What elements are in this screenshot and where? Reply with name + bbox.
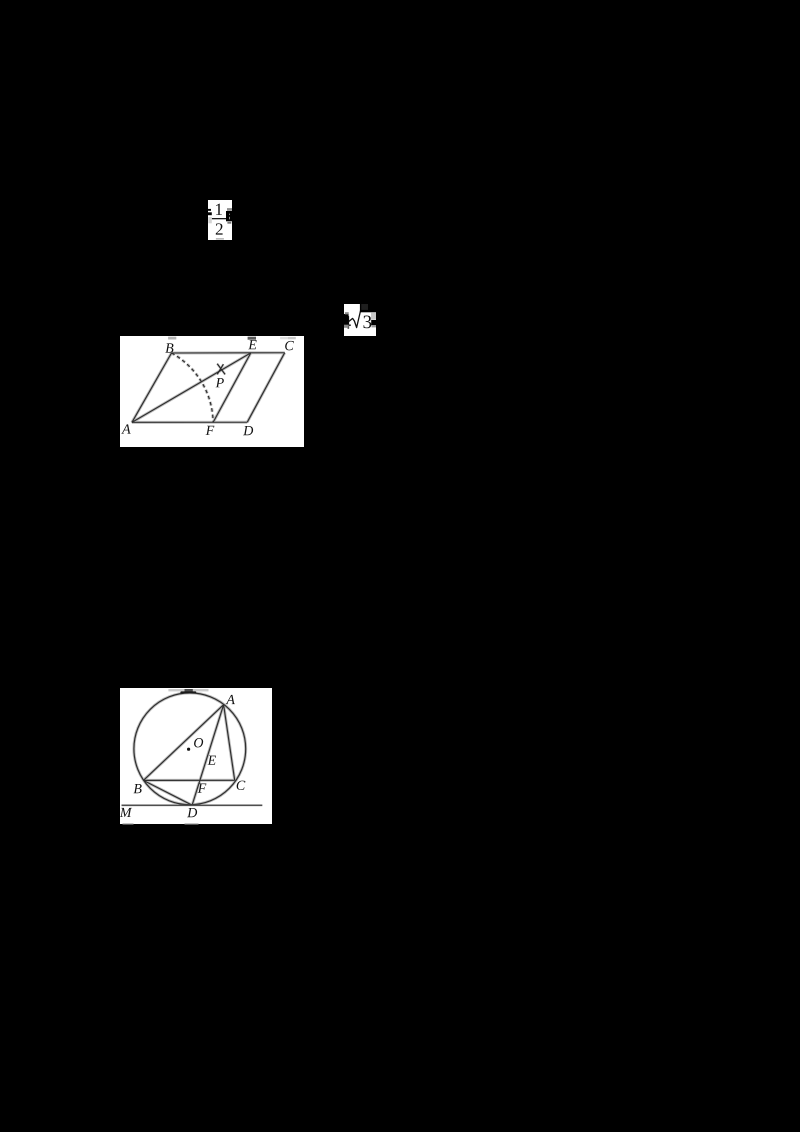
label E [248, 340, 256, 349]
label E [207, 755, 215, 764]
gray tabs above C [280, 336, 288, 338]
formula image: = 1/2 [208, 200, 232, 240]
label P [216, 378, 224, 387]
label B [165, 343, 173, 352]
figure 1: parallelogram ABCD with angle bisector AE, arc B-F, segment EF [120, 336, 304, 447]
side BC [172, 351, 285, 353]
label C [236, 780, 245, 789]
bottom tick under M [122, 823, 133, 824]
digit 4 [342, 316, 351, 329]
figure 2: circle O with inscribed triangle ABD, chord BC, tangent MD [120, 688, 272, 825]
construction cross mark at P [217, 363, 225, 374]
radical sign [349, 310, 368, 328]
side CD [247, 352, 285, 422]
black corner top right [360, 304, 376, 312]
black square right [226, 211, 232, 221]
label M [119, 807, 131, 816]
right column gray strip [372, 325, 377, 327]
digit 3 [363, 316, 371, 329]
chord AC [223, 704, 234, 780]
denominator 2 [216, 223, 223, 234]
faint light marks inside black square [228, 214, 231, 215]
soft halo underlay of all strokes [132, 353, 172, 422]
equals sign remnant [208, 209, 211, 211]
tangent line through M and D [121, 804, 262, 806]
gray tab above E [248, 336, 256, 339]
label A [225, 694, 234, 703]
side AB [132, 353, 172, 422]
label A [121, 424, 130, 433]
right column gray square [371, 312, 376, 319]
gray smudge left [208, 217, 212, 223]
bottom tick under D [184, 823, 198, 824]
dashed compass arc from B to F [172, 353, 214, 422]
gray dash below square [227, 222, 231, 224]
center dot O [187, 747, 190, 750]
gray strip top [168, 689, 208, 691]
label C [285, 340, 294, 349]
chord AB [143, 704, 223, 780]
right column black square [371, 320, 376, 325]
label O [194, 738, 203, 747]
chord BD [143, 780, 192, 805]
segment EF [213, 352, 251, 422]
chord AD [192, 704, 224, 805]
bottom gray strip [216, 238, 224, 240]
label F [197, 783, 206, 792]
angle bisector AE [132, 352, 251, 422]
circle O [133, 692, 245, 804]
soft halo underlay of all strokes [133, 692, 245, 804]
side AD [132, 421, 247, 423]
numerator 1 [216, 204, 222, 215]
black patch over 4 [344, 314, 349, 325]
formula image: 4 sqrt 3 [344, 304, 376, 336]
chord BC [143, 779, 234, 781]
label F [206, 425, 215, 434]
gray tab above B [168, 336, 176, 339]
fraction bar [212, 218, 226, 219]
label B [133, 784, 141, 793]
label D [243, 426, 253, 435]
label D [187, 808, 197, 817]
gray tab top right [227, 208, 232, 211]
